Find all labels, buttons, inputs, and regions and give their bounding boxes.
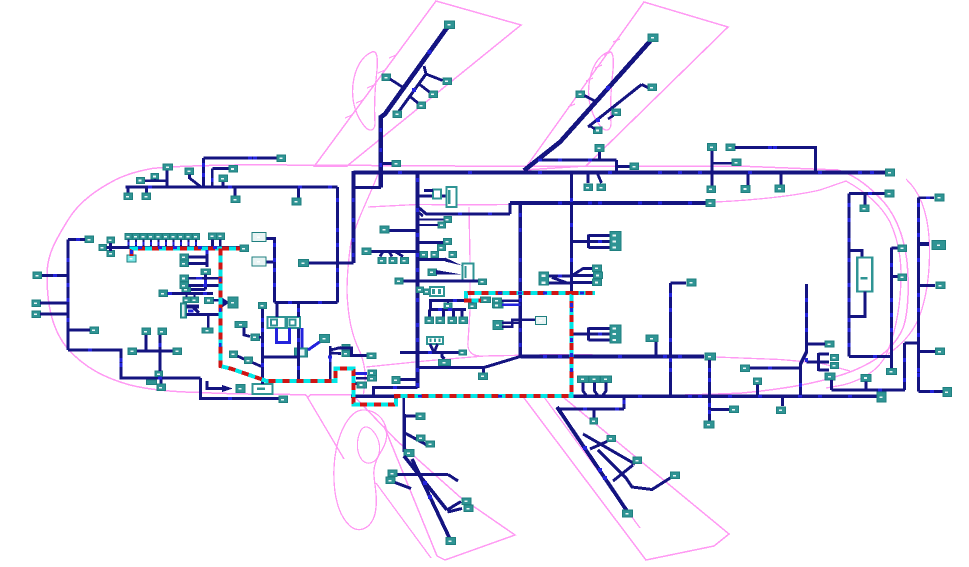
connector [444, 303, 452, 309]
wire comb bar3 [187, 313, 198, 316]
connector [367, 353, 376, 359]
wire vertical x68 [67, 240, 70, 351]
wire y351 [919, 350, 936, 353]
rear-left door hatch ticks [613, 39, 620, 42]
wire y239 [68, 238, 85, 241]
wire y330 [68, 329, 90, 332]
wire branch3 [410, 97, 418, 104]
wire stub [615, 160, 618, 173]
wire stub [830, 380, 833, 390]
connector end [623, 510, 633, 517]
wire drop to door [404, 396, 416, 416]
wire E spine [817, 353, 820, 371]
wire stub [222, 182, 225, 187]
wire branch [390, 79, 404, 88]
connector [342, 351, 350, 357]
wire door diagonal A [404, 456, 447, 510]
wire branch [642, 85, 649, 88]
wire arrowhead [222, 385, 233, 392]
connector [726, 144, 735, 151]
connector [687, 279, 696, 286]
front-right door inner line [376, 483, 431, 558]
wire elbow [509, 203, 512, 214]
wire y247 bus [132, 246, 241, 249]
wire vertical x520 [518, 203, 522, 357]
wire door diagonal B [412, 459, 450, 538]
wire comb stub [428, 310, 431, 318]
front-right door outline [355, 397, 515, 560]
wire wedge [193, 307, 199, 313]
wire y300 branch [429, 299, 465, 302]
wire rr ladder [583, 434, 635, 464]
wire fan mid [572, 274, 594, 277]
connector [157, 384, 166, 391]
wire door parallel [588, 85, 642, 128]
wire y474 [397, 473, 448, 476]
wire y293 jog [466, 293, 480, 300]
connector block small [433, 190, 441, 199]
wire fan2 [389, 252, 392, 257]
connector [935, 194, 944, 201]
wire fan3 [395, 252, 403, 257]
wire stub [356, 377, 367, 380]
connector [885, 190, 894, 197]
inner rear arch [826, 181, 901, 388]
wire hook1 [447, 502, 461, 511]
wire link [590, 126, 595, 129]
car body outline [47, 165, 908, 397]
wire diagonal [238, 356, 246, 360]
wire thick stub [919, 242, 930, 246]
connector tall3 [539, 272, 549, 285]
wire front main bus y187 [126, 185, 338, 188]
wire front-left door trunk [381, 25, 449, 188]
connector [368, 370, 377, 376]
wire stub [756, 385, 759, 397]
connector [444, 239, 452, 245]
B-pillar line [468, 207, 480, 356]
wire fan up [572, 269, 594, 277]
connector [861, 374, 871, 381]
connector [251, 334, 259, 341]
connector [342, 345, 350, 351]
connector [593, 265, 602, 272]
wire stub [219, 240, 222, 248]
connector [32, 311, 41, 318]
wire main bottom trunk y396 [351, 394, 877, 398]
connector [180, 282, 189, 289]
connector [630, 163, 639, 170]
wire thin [418, 224, 439, 226]
wire vertical x918 [917, 198, 920, 392]
connector [449, 252, 457, 258]
wire y409 [557, 408, 624, 411]
wire y283 stub [671, 282, 687, 285]
wire wedge2 [418, 212, 424, 217]
wire blue diagonal [308, 342, 320, 350]
wire comb spine [587, 235, 590, 249]
wire x167 [166, 170, 169, 187]
connector [380, 226, 389, 233]
connector [593, 279, 602, 286]
connector [462, 498, 471, 505]
connector [107, 237, 115, 243]
wire x205 [204, 275, 207, 290]
wire comb2 spine [587, 328, 590, 341]
connector [648, 84, 657, 91]
wire stub [194, 294, 196, 298]
connector [229, 166, 238, 173]
wire y263 [309, 262, 353, 265]
wire branch [585, 96, 597, 103]
connector [128, 348, 137, 355]
wire y293 [168, 292, 214, 295]
wire fan low [572, 281, 593, 284]
connector [443, 78, 452, 85]
connector [730, 406, 739, 413]
wire y251 [371, 250, 418, 253]
wire vertical x709 [708, 360, 711, 421]
wire stub [711, 151, 714, 173]
wire stub [472, 301, 474, 304]
connector [707, 186, 716, 193]
connector [231, 196, 240, 203]
connector [601, 376, 612, 383]
wire stub [145, 335, 148, 351]
wire stub [234, 188, 237, 196]
connector [417, 287, 424, 293]
connector wide [202, 328, 213, 333]
wire x160 [159, 335, 162, 371]
wire y160 [539, 159, 617, 162]
connector [393, 111, 402, 118]
wire diagonal [190, 175, 202, 188]
wire vertical x806 [801, 284, 807, 396]
wire diagonal [330, 352, 341, 355]
connector [708, 144, 717, 151]
wire stub [711, 173, 714, 186]
connector white [536, 317, 547, 325]
connector [732, 159, 741, 166]
A-pillar curve [347, 168, 380, 394]
connector [151, 174, 159, 180]
connector [33, 272, 42, 279]
connector [401, 258, 409, 264]
connector [158, 328, 167, 335]
connector [594, 272, 603, 279]
connector [576, 91, 585, 98]
wire stub [655, 342, 658, 357]
wire stub [781, 396, 784, 406]
wire y391 [919, 390, 944, 393]
connector [191, 297, 199, 303]
wire stub [154, 179, 156, 182]
connector [277, 155, 286, 162]
connector [671, 472, 680, 479]
wire y387 corner [374, 388, 418, 396]
wire y197 [919, 196, 935, 199]
connector [368, 376, 377, 382]
wire y147 loop [735, 148, 816, 173]
connector white large [268, 317, 286, 328]
wire stub [429, 301, 432, 310]
connector [416, 413, 425, 420]
wire stub [865, 382, 868, 391]
wire stub [186, 294, 188, 298]
wire y163 [712, 162, 732, 165]
connector [469, 303, 477, 309]
wire link [590, 442, 607, 450]
connector [386, 477, 395, 484]
connector [584, 184, 593, 191]
wire parallel branch [397, 66, 426, 114]
connector [633, 457, 642, 464]
connector [142, 193, 151, 200]
connector [90, 327, 99, 334]
wire y283 [549, 282, 572, 285]
wire stub [211, 240, 214, 248]
connector tall [610, 232, 621, 251]
wire jog [244, 328, 250, 337]
connector [32, 300, 41, 307]
wire V left [430, 344, 434, 352]
wire inner L [207, 381, 222, 389]
wire rr loop [598, 450, 671, 490]
connector [201, 269, 211, 275]
connector [107, 251, 115, 257]
connector [180, 254, 189, 260]
connector white [252, 233, 266, 242]
rear door sill line [368, 181, 846, 207]
connector pin strip [181, 303, 187, 318]
wire y230 [389, 229, 418, 232]
front-left mirror lobe [353, 52, 378, 130]
connector [292, 198, 301, 205]
wire trunk y203 [510, 201, 707, 205]
connector row over dashed bus [125, 233, 132, 239]
wire E tooth1 [819, 353, 830, 356]
wire stub [424, 189, 433, 192]
wire stub [145, 188, 148, 194]
wire vertical x670 [669, 283, 672, 396]
wire V right [435, 344, 438, 352]
connector [205, 297, 214, 303]
door sill bottom line [366, 355, 850, 372]
wire blue U [277, 328, 290, 343]
rear-right door inner line [544, 397, 640, 528]
wire arrow wedge1 [445, 258, 462, 266]
front-right fender edge [307, 397, 344, 460]
wire battery feed [849, 251, 862, 258]
wire comb2 stem [572, 333, 589, 336]
wire jog y187 [353, 186, 381, 189]
wire hook [595, 383, 599, 397]
connector [438, 245, 446, 251]
wire stub [892, 275, 899, 278]
connector [99, 245, 107, 251]
connector [245, 357, 253, 364]
wire comb bar2 blue [188, 309, 194, 312]
connector [388, 470, 397, 477]
highlight route segment A [132, 249, 241, 257]
wire stub [109, 243, 112, 251]
wire vertical x849 [847, 194, 850, 357]
wire comb2 tooth3 [589, 339, 611, 342]
connector [395, 278, 403, 284]
connector [163, 164, 173, 170]
connector [578, 376, 589, 383]
wire blue drop [301, 328, 304, 348]
wire comb bar y309 [429, 308, 466, 311]
wire to y398 [201, 378, 280, 399]
wire y247 [107, 246, 132, 249]
wire rr cross [613, 465, 633, 481]
wire y213 [418, 207, 511, 214]
wire taper [442, 353, 445, 360]
wire stub [214, 299, 220, 302]
wire y168 [212, 167, 229, 170]
wire blue stub [354, 372, 368, 375]
wire y409 [711, 408, 729, 411]
connector [180, 260, 189, 267]
connector block [463, 264, 474, 281]
wire stub [267, 261, 275, 264]
wire comb2 tooth1 [589, 327, 611, 330]
connector [448, 317, 457, 324]
wire diagonal [330, 348, 341, 351]
connector [424, 289, 431, 295]
connector [417, 435, 426, 441]
wire y390 [832, 389, 906, 392]
wire vertical x891 [890, 248, 893, 369]
wire hook2 [448, 509, 463, 513]
highlight route segment C [572, 292, 596, 295]
wire diag [448, 475, 458, 482]
wire stub down [130, 248, 133, 256]
rear-left door outline [524, 2, 728, 170]
wire comb tooth2 [589, 240, 611, 243]
connector on trunk [404, 450, 414, 457]
wire arrow wedge2 [436, 270, 462, 275]
wire link [608, 116, 614, 120]
wire y196 [418, 195, 447, 198]
connector [236, 385, 245, 393]
connector [898, 245, 907, 252]
connector [230, 351, 238, 358]
connector [219, 175, 228, 182]
connector wide [235, 322, 247, 328]
connector wide [439, 360, 451, 366]
connector [705, 353, 716, 360]
wire y303 [40, 302, 68, 305]
wire stub [587, 173, 590, 184]
wire vertical x353 trunk [351, 171, 355, 263]
wire stub [207, 315, 210, 328]
connector wide 4pin [427, 337, 443, 344]
connector door end [445, 21, 455, 29]
connector [279, 396, 288, 403]
wire front lower path [68, 350, 201, 378]
outer rear arch [888, 179, 930, 354]
wire jog y355 [338, 348, 368, 356]
connector [173, 348, 182, 355]
connector [299, 260, 309, 267]
connector [182, 286, 191, 293]
component battery [857, 258, 872, 292]
connector [936, 282, 945, 289]
wire vertical x417 trunk [415, 173, 419, 389]
connector [860, 205, 869, 212]
connector [936, 348, 945, 355]
wire branch1 [426, 74, 443, 81]
wire y314 [40, 313, 68, 316]
connector route end [481, 297, 491, 303]
connector [124, 193, 133, 200]
connector [612, 109, 621, 116]
connector [704, 421, 714, 428]
wire stub [447, 301, 449, 304]
wire arrow to connector [222, 298, 230, 308]
wire hook [602, 383, 606, 397]
front-right lobe inner [357, 427, 379, 463]
connector white large2 [287, 317, 300, 328]
wire comb stem [572, 240, 589, 243]
wire stub [747, 173, 750, 186]
connector [493, 298, 502, 303]
connector [706, 200, 715, 207]
wire hook [583, 383, 587, 397]
connector [590, 418, 598, 424]
wire fan1 [380, 252, 383, 257]
connector [943, 388, 952, 397]
wire y357 [263, 356, 299, 359]
connector white [252, 257, 266, 266]
connector [438, 222, 446, 228]
wire x207 [206, 249, 209, 268]
connector [240, 245, 249, 252]
wire diagonal [552, 278, 566, 283]
connector [831, 363, 839, 369]
connector [831, 355, 839, 361]
wire stub [297, 187, 300, 198]
wire y314 to route [197, 313, 220, 316]
wire rr door trunk [557, 407, 627, 511]
wire diagonal [253, 363, 263, 368]
junction ticks [148, 186, 152, 189]
connector [444, 217, 452, 223]
wire L x274 [267, 239, 275, 303]
connector [425, 317, 434, 324]
connector [825, 373, 835, 380]
wire door trunk upper [403, 414, 406, 452]
connector [295, 348, 308, 357]
connector trunk end [886, 169, 895, 176]
connector wide [646, 335, 658, 342]
connector [589, 376, 600, 383]
rear-right door outline [524, 397, 729, 560]
wire jog y343 [905, 342, 919, 345]
wire y193 [849, 192, 885, 195]
wire stub [259, 336, 263, 339]
wire y293 bus [466, 292, 572, 295]
wire stub [502, 299, 520, 302]
connector [741, 185, 750, 192]
connector [479, 279, 487, 285]
wire x262 [261, 309, 264, 384]
wire E tooth3 [819, 369, 830, 372]
wire stub [864, 194, 867, 206]
wire diag2 [395, 483, 411, 489]
